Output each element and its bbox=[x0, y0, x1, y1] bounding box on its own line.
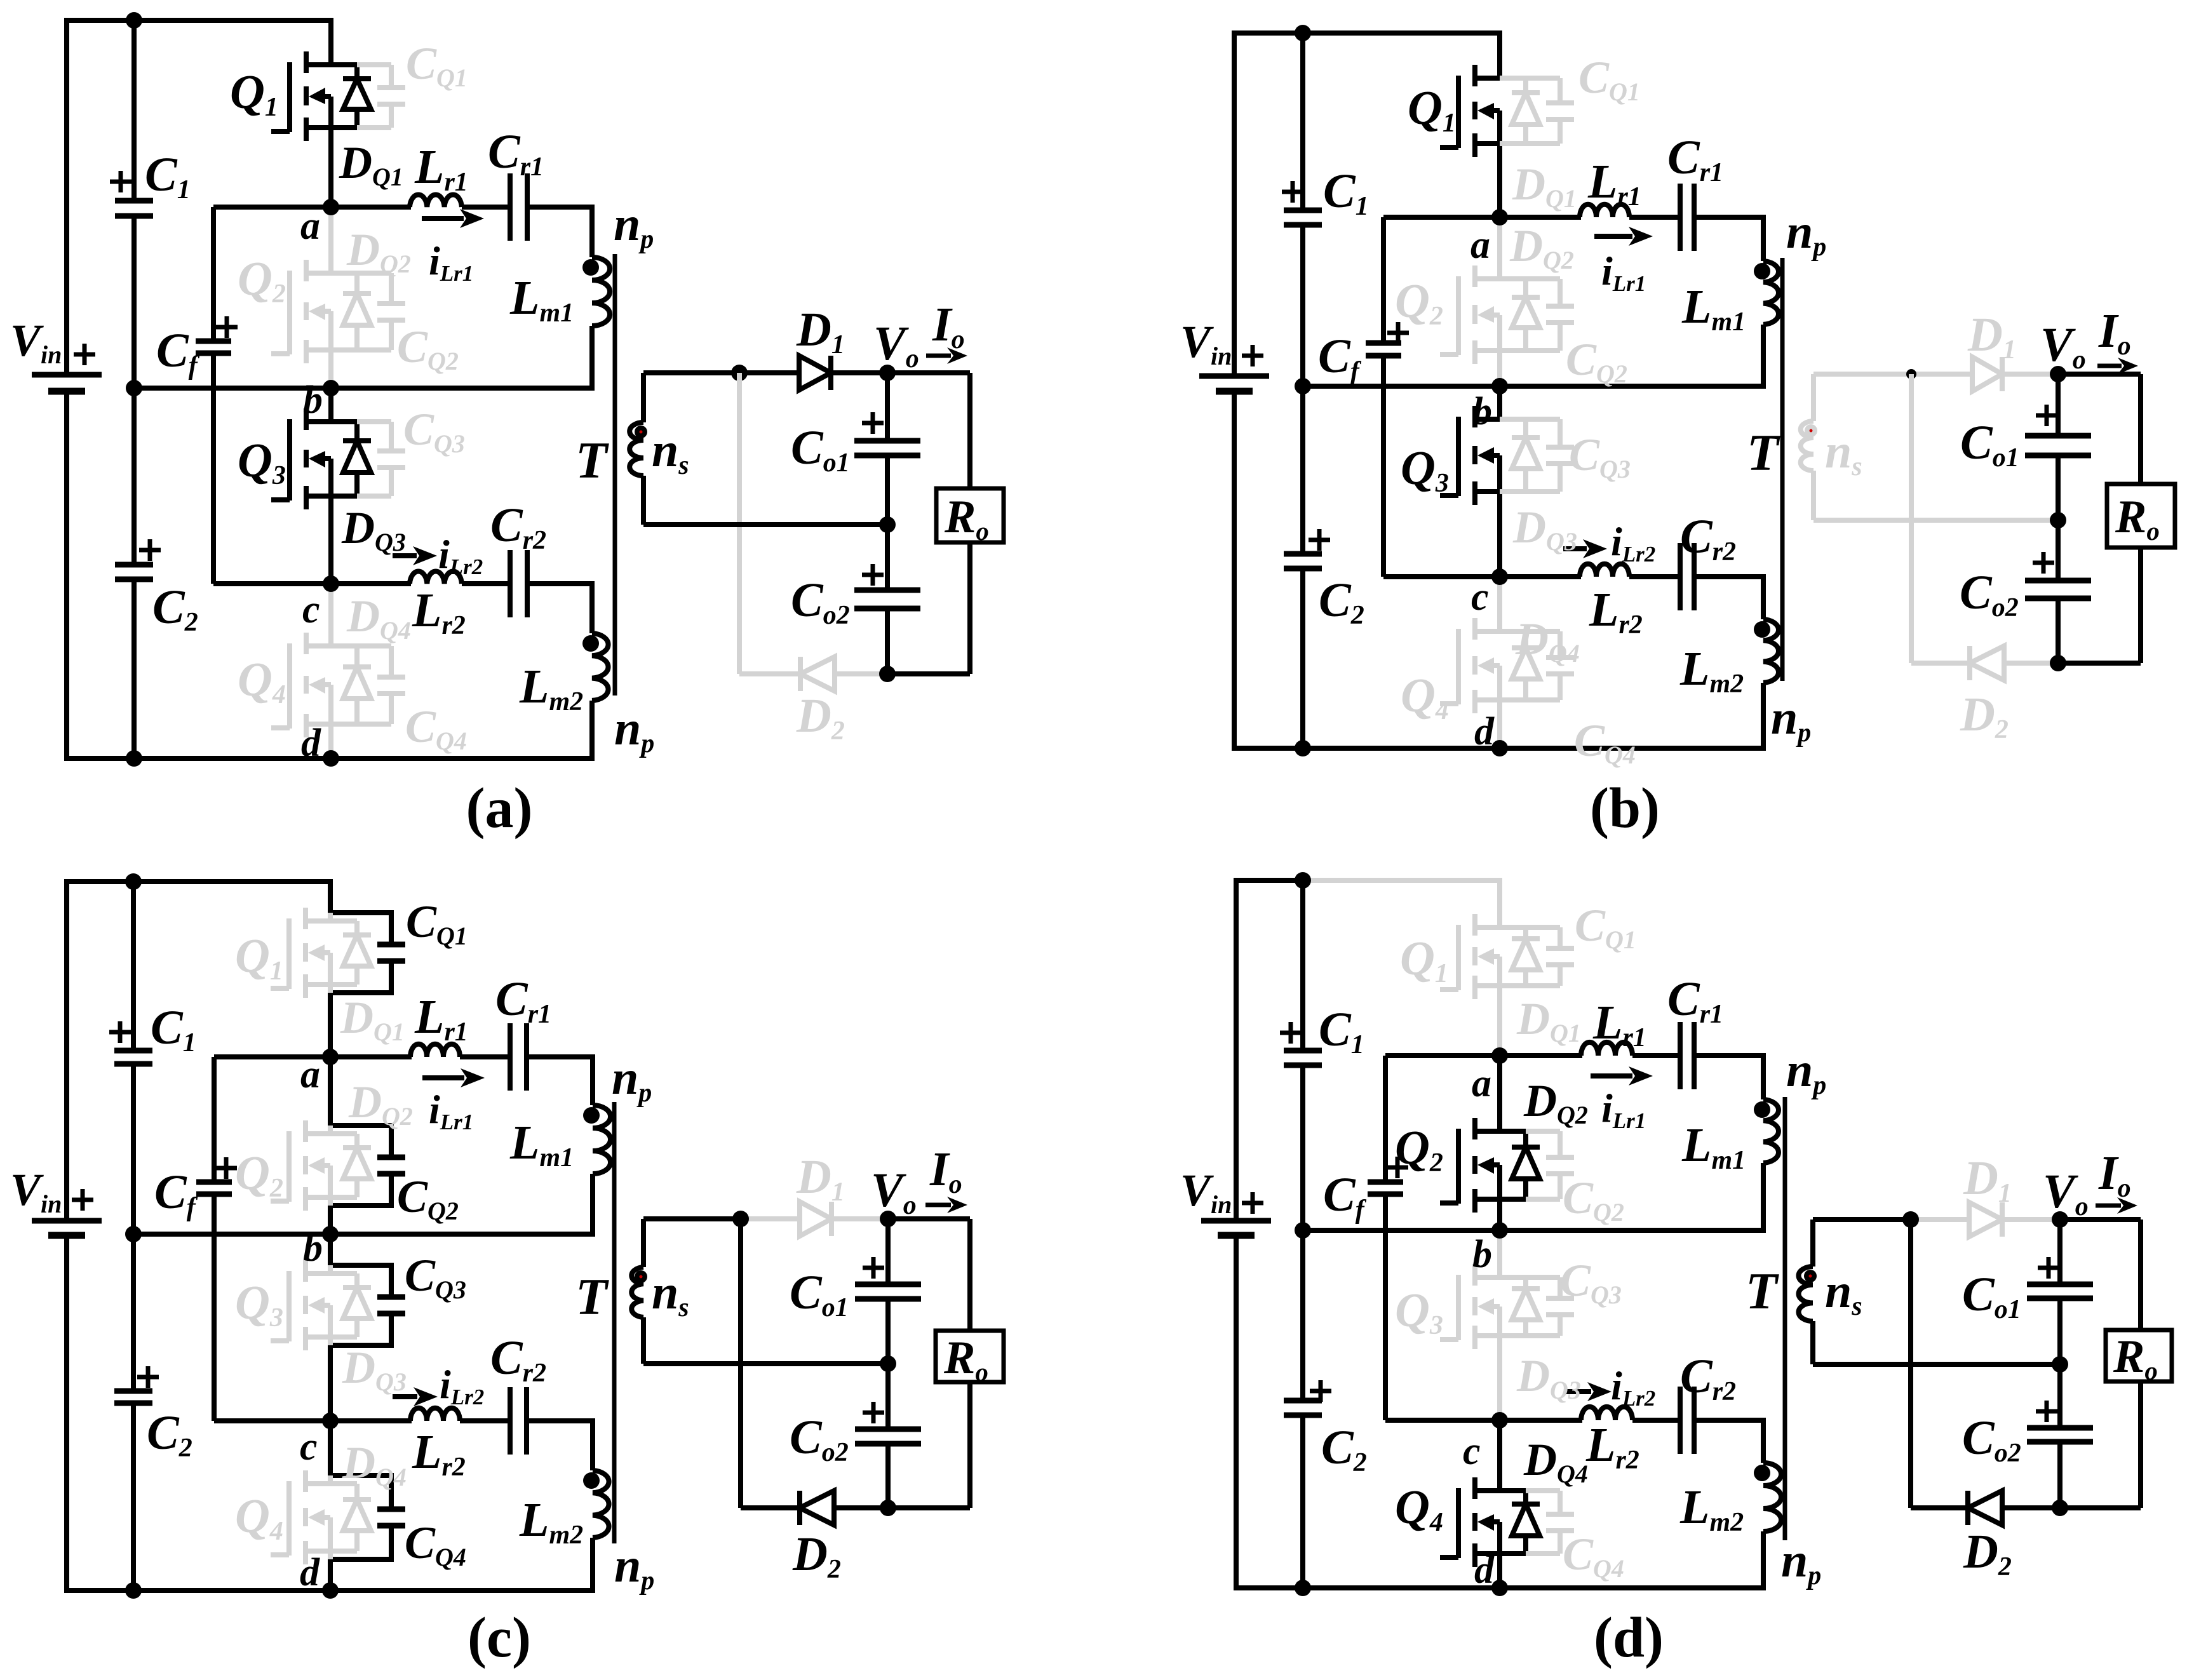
plus sign Vin (a) bbox=[74, 344, 95, 365]
transistor Q3 (d) bbox=[1440, 1264, 1500, 1349]
wire load right bottom (d) bbox=[2138, 1381, 2143, 1508]
diode DQ3 body diode (a) bbox=[343, 422, 371, 496]
transistor Q2 (d) bbox=[1440, 1118, 1500, 1213]
inductor Lr1 (d) bbox=[1581, 1042, 1632, 1056]
current arrow Io (d) bbox=[2096, 1197, 2137, 1214]
wire D1 to Vo (d) bbox=[2002, 1217, 2060, 1222]
wire junction to D1 (b) bbox=[1911, 372, 1972, 377]
label DQ1 (d) bbox=[1516, 993, 1581, 1047]
wire Q2 source lead (b) bbox=[1497, 351, 1502, 386]
node bottom rail junction (c) bbox=[125, 1582, 142, 1599]
capacitor CQ2 snubber (a) bbox=[357, 273, 405, 350]
label CQ3 (d) bbox=[1560, 1255, 1622, 1309]
svg-text:d: d bbox=[1474, 710, 1495, 753]
capacitor C2 (d) bbox=[1284, 1401, 1322, 1415]
wire Q1 drain lead (d) bbox=[1497, 880, 1502, 927]
current arrow Io (c) bbox=[925, 1197, 967, 1213]
wire Q3 drain lead (d) bbox=[1497, 1230, 1502, 1277]
label d (d) bbox=[1474, 1549, 1495, 1592]
plus sign C1 (b) bbox=[1282, 181, 1303, 203]
label Io (c) bbox=[929, 1143, 962, 1199]
inductor Lr2 (c) bbox=[410, 1408, 460, 1421]
wire Q3 diode taps (a) bbox=[331, 422, 357, 496]
label Vin (d) bbox=[1180, 1165, 1232, 1219]
winding ns (b) bbox=[1801, 374, 1814, 520]
label Q1 (c) bbox=[235, 929, 283, 986]
wire c-rail (a) bbox=[213, 581, 411, 586]
label Vo (b) bbox=[2040, 318, 2086, 375]
node Co midpoint (c) bbox=[880, 1355, 896, 1372]
wire Q2 source lead (a) bbox=[328, 350, 333, 388]
wire bottom to load (d) bbox=[2060, 1505, 2141, 1510]
capacitor CQ2 snubber (b) bbox=[1526, 279, 1574, 351]
label Q1 (b) bbox=[1408, 81, 1456, 138]
label Vo (c) bbox=[871, 1164, 917, 1220]
wire mid rail (a) bbox=[643, 522, 887, 527]
plus sign Vin (c) bbox=[72, 1189, 93, 1211]
svg-text:(c): (c) bbox=[468, 1606, 531, 1669]
svg-text:b: b bbox=[303, 1226, 323, 1270]
capacitor CQ3 snubber (a) bbox=[357, 422, 405, 496]
wire ns top to junction (a) bbox=[643, 370, 739, 375]
transistor Q3 (b) bbox=[1440, 406, 1500, 505]
transformer core T (b) bbox=[1780, 258, 1785, 681]
node c (a) bbox=[323, 575, 339, 592]
wire Cr2 to np2 (b) bbox=[1694, 577, 1763, 619]
label c (c) bbox=[300, 1425, 318, 1468]
wire Vo to load top (d) bbox=[2060, 1217, 2141, 1222]
battery Vin (c) bbox=[32, 1221, 102, 1235]
wire np2 return to bottom rail (d) bbox=[1761, 1531, 1766, 1588]
label caption (a) (a) bbox=[466, 777, 533, 840]
label CQ3 (c) bbox=[405, 1250, 466, 1304]
polarity dot np1 (a) bbox=[582, 259, 599, 276]
capacitor Cr1 (d) bbox=[1680, 1022, 1694, 1089]
wire battery to top rail (c) bbox=[67, 882, 133, 1218]
wire Q4 source lead (d) bbox=[1497, 1554, 1502, 1588]
wire Cf bottom lead (d) bbox=[1383, 1194, 1388, 1420]
wire a-rail (a) bbox=[213, 205, 411, 210]
wire battery to bottom rail (c) bbox=[67, 1238, 133, 1590]
wire bottom to load (b) bbox=[2058, 661, 2141, 666]
resistor Ro (b) bbox=[2107, 484, 2175, 548]
wire D2 anode rail (c) bbox=[741, 1505, 888, 1510]
wire C1 to b-rail (a) bbox=[131, 216, 137, 388]
wire b-rail (b) bbox=[1303, 384, 1766, 389]
diode D2 (d) bbox=[1968, 1491, 2002, 1525]
label a (a) bbox=[300, 205, 320, 248]
svg-text:(a): (a) bbox=[466, 777, 533, 840]
label Q3 (a) bbox=[238, 434, 286, 490]
plus sign Co2 (c) bbox=[863, 1402, 884, 1423]
label iLr1 (b) bbox=[1601, 248, 1646, 296]
label DQ3 (b) bbox=[1512, 502, 1577, 556]
label D2 (d) bbox=[1963, 1525, 2012, 1582]
capacitor CQ2 inline (c) bbox=[377, 1157, 405, 1174]
inductor Lr1 (c) bbox=[410, 1044, 460, 1057]
node bottom rail junction (b) bbox=[1295, 740, 1311, 756]
wire Vo to Co1 (d) bbox=[2057, 1220, 2063, 1284]
winding ns (c) bbox=[631, 1219, 643, 1364]
label Lm1 (d) bbox=[1681, 1119, 1746, 1175]
wire Co2 to bottom (d) bbox=[2057, 1442, 2063, 1508]
wire Q4 drain lead (a) bbox=[328, 584, 333, 646]
current arrow iLr2 (a) bbox=[393, 546, 437, 565]
capacitor Cr2 (c) bbox=[510, 1387, 527, 1455]
diode DQ4 body diode (c) bbox=[330, 1484, 371, 1551]
inductor Lr1 (a) bbox=[410, 195, 462, 207]
capacitor C1 (d) bbox=[1284, 1051, 1322, 1065]
node C1-C2 junction on b-rail (d) bbox=[1295, 1222, 1311, 1239]
diode D2 (c) bbox=[800, 1491, 834, 1525]
label ns (b) bbox=[1825, 425, 1862, 481]
label ns (a) bbox=[652, 424, 689, 480]
svg-text:b: b bbox=[303, 379, 323, 422]
label iLr1 (c) bbox=[429, 1087, 473, 1134]
wire Cf top lead (c) bbox=[212, 1057, 217, 1182]
node Co midpoint (d) bbox=[2052, 1356, 2068, 1373]
wire C-chain upper (d) bbox=[1300, 880, 1305, 1051]
svg-text:(d): (d) bbox=[1594, 1606, 1664, 1669]
label c (b) bbox=[1471, 575, 1489, 619]
capacitor CQ4 snubber (d) bbox=[1526, 1491, 1574, 1554]
node top rail junction (a) bbox=[126, 12, 142, 29]
label D1 (b) bbox=[1967, 308, 2016, 365]
wire Lr1 to Cr1 (d) bbox=[1632, 1053, 1680, 1058]
plus sign Co2 (d) bbox=[2036, 1401, 2057, 1422]
polarity dot np1 (c) bbox=[583, 1107, 600, 1124]
wire junction to D1 (d) bbox=[1911, 1217, 1969, 1222]
wire Q3 source lead (a) bbox=[328, 496, 333, 584]
plus sign Cf (b) bbox=[1387, 322, 1409, 344]
label Co1 (b) bbox=[1960, 416, 2019, 473]
wire Cr1 to np1 (a) bbox=[527, 207, 592, 257]
polarity dot np2 (c) bbox=[583, 1472, 600, 1489]
capacitor CQ1 snubber (a) bbox=[357, 65, 405, 128]
capacitor CQ1 inline (c) bbox=[377, 944, 405, 961]
battery Vin (a) bbox=[32, 375, 102, 391]
wire Cf bottom lead (a) bbox=[211, 353, 216, 584]
label Co2 (c) bbox=[790, 1411, 849, 1467]
label D2 (c) bbox=[792, 1528, 841, 1584]
wire C-chain upper (a) bbox=[131, 20, 137, 201]
label b (c) bbox=[303, 1226, 323, 1270]
wire Lr1 to Cr1 (b) bbox=[1629, 215, 1680, 220]
label DQ3 (a) bbox=[341, 502, 406, 556]
wire np2 return to bottom rail (a) bbox=[589, 701, 595, 758]
label CQ1 (c) bbox=[406, 896, 468, 950]
node d (a) bbox=[323, 750, 339, 767]
winding ns (a) bbox=[629, 373, 643, 525]
winding np2 / Lm2 (d) bbox=[1763, 1463, 1781, 1531]
resistor Ro (d) bbox=[2106, 1330, 2172, 1385]
wire C2 lower lead (d) bbox=[1300, 1415, 1305, 1588]
capacitor CQ4 snubber (b) bbox=[1526, 631, 1574, 700]
label Q2 (b) bbox=[1395, 274, 1443, 331]
wire Co1 to mid (b) bbox=[2056, 455, 2061, 520]
label a (b) bbox=[1470, 224, 1490, 267]
label Vin (c) bbox=[10, 1164, 62, 1218]
current arrow iLr1 (b) bbox=[1594, 227, 1653, 246]
label Q3 (b) bbox=[1401, 441, 1449, 498]
wire Cf top lead (a) bbox=[211, 207, 216, 341]
capacitor Cr1 (c) bbox=[510, 1023, 527, 1091]
capacitor Cr2 (d) bbox=[1680, 1387, 1694, 1454]
label Lr1 (b) bbox=[1587, 155, 1641, 212]
wire Q1 leg through CQ1 (c) bbox=[330, 882, 391, 1057]
label np top (d) bbox=[1786, 1044, 1826, 1100]
label DQ2 (b) bbox=[1509, 220, 1574, 274]
wire load right bottom (b) bbox=[2138, 548, 2143, 663]
diode DQ1 body diode (a) bbox=[343, 65, 371, 128]
node a (d) bbox=[1491, 1047, 1508, 1064]
label D2 (a) bbox=[796, 689, 845, 746]
wire C2 upper lead (c) bbox=[131, 1234, 136, 1391]
label Lr2 (b) bbox=[1589, 583, 1643, 640]
label Co1 (d) bbox=[1962, 1268, 2021, 1324]
wire Cr2 to np2 (d) bbox=[1694, 1420, 1763, 1463]
label Q2 (d) bbox=[1395, 1121, 1443, 1178]
diode DQ2 body diode (c) bbox=[330, 1134, 371, 1197]
capacitor Co1 (c) bbox=[855, 1284, 921, 1299]
transistor Q2 (a) bbox=[271, 260, 331, 363]
winding np2 / Lm2 (a) bbox=[592, 633, 609, 701]
plus sign C1 (c) bbox=[109, 1021, 131, 1043]
wire junction to D2 branch (d) bbox=[1908, 1220, 1913, 1508]
label b (a) bbox=[303, 379, 323, 422]
label Q2 (c) bbox=[235, 1146, 283, 1203]
wire Q1 diode taps (a) bbox=[331, 65, 357, 128]
wire Cf bottom lead (b) bbox=[1381, 356, 1386, 577]
transistor Q4 (a) bbox=[271, 633, 331, 737]
transistor Q1 (gray) (c) bbox=[271, 908, 330, 998]
label Io (d) bbox=[2098, 1146, 2131, 1203]
plus sign Vin (d) bbox=[1242, 1192, 1263, 1214]
node Vo (b) bbox=[2050, 366, 2066, 382]
polarity dot ns (b) bbox=[1805, 424, 1817, 437]
label np bottom (c) bbox=[614, 1539, 654, 1596]
wire top rail (d) bbox=[1303, 878, 1502, 883]
plus sign Cf (d) bbox=[1387, 1157, 1408, 1178]
plus sign C1 (a) bbox=[110, 171, 131, 192]
node output bottom (d) bbox=[2052, 1500, 2068, 1516]
capacitor CQ3 snubber (d) bbox=[1526, 1277, 1574, 1336]
wire b-rail (c) bbox=[133, 1232, 595, 1237]
wire Q2 diode taps (d) bbox=[1500, 1131, 1526, 1199]
wire Q3 source lead (b) bbox=[1497, 492, 1502, 577]
wire C2 lower lead (b) bbox=[1300, 568, 1305, 748]
label C1 (a) bbox=[145, 148, 191, 205]
wire Cr1 to np1 (d) bbox=[1694, 1056, 1763, 1099]
label Lm1 (c) bbox=[509, 1116, 574, 1173]
wire c-rail (d) bbox=[1385, 1418, 1582, 1423]
capacitor Co1 (d) bbox=[2027, 1284, 2093, 1298]
label Lr1 (c) bbox=[414, 990, 468, 1047]
plus sign C2 (c) bbox=[137, 1366, 159, 1388]
node C1-C2 junction on b-rail (b) bbox=[1295, 378, 1311, 394]
label T (c) bbox=[575, 1268, 609, 1326]
wire Q2 diode taps (a) bbox=[331, 273, 357, 350]
label Cr2 (d) bbox=[1680, 1350, 1736, 1406]
node a (b) bbox=[1491, 209, 1508, 225]
wire bottom to load (a) bbox=[887, 671, 970, 676]
wire C2 upper lead (a) bbox=[131, 388, 137, 565]
inductor Lr2 (b) bbox=[1580, 564, 1629, 577]
label Lr2 (c) bbox=[412, 1425, 466, 1482]
wire Lr2 to Cr2 (b) bbox=[1629, 574, 1680, 579]
label D2 (b) bbox=[1960, 688, 2009, 744]
wire Lr1 to Cr1 (c) bbox=[460, 1054, 510, 1059]
inductor Lr2 (d) bbox=[1581, 1407, 1632, 1420]
diode D1 (d) bbox=[1969, 1202, 2002, 1237]
label ns (c) bbox=[652, 1266, 689, 1322]
wire ns top to junction (c) bbox=[643, 1216, 741, 1221]
plus sign C2 (a) bbox=[139, 539, 161, 561]
svg-text:a: a bbox=[1472, 1062, 1491, 1105]
label Lr2 (d) bbox=[1585, 1418, 1639, 1475]
wire junction to D2 branch (b) bbox=[1909, 374, 1914, 663]
node Co midpoint (a) bbox=[879, 516, 896, 533]
node b (b) bbox=[1491, 378, 1508, 394]
node top rail junction (d) bbox=[1295, 872, 1311, 889]
diode DQ3 body diode (c) bbox=[330, 1273, 371, 1337]
capacitor Cr1 (b) bbox=[1680, 184, 1694, 251]
wire mid rail (c) bbox=[643, 1361, 888, 1366]
label DQ2 (d) bbox=[1523, 1075, 1588, 1129]
plus sign Co2 (b) bbox=[2033, 552, 2054, 574]
label Lr1 (d) bbox=[1592, 996, 1646, 1052]
label Co1 (c) bbox=[790, 1266, 849, 1322]
transistor Q3 (a) bbox=[271, 408, 331, 509]
label Vo (d) bbox=[2043, 1165, 2089, 1221]
label Io (b) bbox=[2098, 304, 2131, 361]
polarity dot np2 (d) bbox=[1754, 1465, 1770, 1481]
wire Cf top lead (b) bbox=[1381, 217, 1386, 343]
label C1 (b) bbox=[1323, 165, 1369, 221]
transistor Q1 (a) bbox=[271, 51, 331, 141]
capacitor Cf (d) bbox=[1368, 1182, 1403, 1194]
node c (b) bbox=[1491, 568, 1508, 585]
wire C2 lower lead (a) bbox=[131, 579, 137, 758]
current arrow iLr1 (a) bbox=[422, 209, 484, 228]
node top rail junction (b) bbox=[1295, 25, 1311, 41]
wire load right bottom (a) bbox=[967, 542, 972, 674]
wire Co1 to mid (d) bbox=[2057, 1298, 2063, 1364]
label np top (b) bbox=[1786, 205, 1826, 262]
diode DQ2 body diode (d) bbox=[1512, 1131, 1540, 1199]
label d (c) bbox=[300, 1551, 320, 1594]
wire Q2 drain lead (a) bbox=[328, 207, 333, 273]
node Vo (a) bbox=[879, 365, 896, 381]
svg-text:T: T bbox=[1746, 1262, 1779, 1320]
winding np1 / Lm1 (d) bbox=[1763, 1099, 1779, 1163]
wire bottom rail (c) bbox=[133, 1588, 595, 1593]
wire bottom to load (c) bbox=[888, 1505, 970, 1510]
label Cr2 (c) bbox=[490, 1331, 546, 1388]
diode DQ3 body diode (d) bbox=[1512, 1277, 1540, 1336]
wire load right top (d) bbox=[2138, 1220, 2143, 1330]
wire Q1 diode taps (d) bbox=[1500, 927, 1526, 986]
label iLr1 (d) bbox=[1601, 1085, 1646, 1133]
svg-text:d: d bbox=[1474, 1549, 1495, 1592]
svg-text:a: a bbox=[1470, 224, 1490, 267]
label CQ4 (a) bbox=[405, 701, 467, 755]
wire Co1 to mid (c) bbox=[885, 1299, 891, 1364]
label CQ2 (c) bbox=[397, 1171, 459, 1225]
wire Cf bottom lead (c) bbox=[212, 1194, 217, 1421]
label Co2 (d) bbox=[1962, 1411, 2021, 1468]
wire a-rail (d) bbox=[1385, 1053, 1582, 1058]
label np top (c) bbox=[612, 1051, 652, 1108]
current arrow iLr2 (b) bbox=[1563, 539, 1607, 558]
wire top rail (b) bbox=[1303, 30, 1502, 36]
wire Lr1 to Cr1 (a) bbox=[462, 205, 510, 210]
wire Q1 source lead (d) bbox=[1497, 986, 1502, 1056]
svg-text:a: a bbox=[300, 205, 320, 248]
label Lm2 (b) bbox=[1679, 642, 1744, 699]
transistor Q4 (gray) (c) bbox=[271, 1470, 330, 1564]
polarity dot np1 (b) bbox=[1754, 263, 1770, 279]
label caption (d) (d) bbox=[1594, 1606, 1664, 1669]
wire a-rail (c) bbox=[214, 1054, 412, 1059]
diode D1 (b) bbox=[1972, 357, 2002, 391]
label c (d) bbox=[1463, 1430, 1481, 1473]
label Q4 (d) bbox=[1395, 1481, 1443, 1537]
capacitor Cf (c) bbox=[196, 1182, 232, 1194]
wire load right top (a) bbox=[967, 373, 972, 488]
label a (c) bbox=[300, 1053, 320, 1096]
label Vo (a) bbox=[873, 317, 919, 373]
capacitor C2 (b) bbox=[1284, 554, 1322, 568]
wire Lr2 to Cr2 (a) bbox=[462, 581, 510, 586]
transformer core T (a) bbox=[613, 254, 617, 696]
plus sign Cf (a) bbox=[216, 316, 238, 338]
polarity dot np2 (b) bbox=[1754, 621, 1770, 638]
winding np1 / Lm1 (c) bbox=[593, 1105, 610, 1174]
current arrow Io (a) bbox=[926, 347, 967, 364]
winding np1 / Lm1 (b) bbox=[1763, 261, 1779, 325]
label caption (b) (b) bbox=[1590, 777, 1660, 840]
node a (a) bbox=[323, 199, 339, 215]
wire D2 anode rail (b) bbox=[1911, 661, 2058, 666]
label iLr2 (b) bbox=[1611, 519, 1655, 567]
capacitor CQ4 snubber (a) bbox=[357, 646, 405, 724]
wire Q3 source lead (d) bbox=[1497, 1336, 1502, 1420]
label D1 (a) bbox=[796, 303, 845, 360]
transistor Q2 (b) bbox=[1440, 265, 1500, 364]
wire Vo to load top (c) bbox=[888, 1216, 970, 1221]
wire np1 return to b-rail (b) bbox=[1761, 325, 1766, 386]
node secondary junction (a) bbox=[731, 365, 748, 381]
wire Q3 diode taps (d) bbox=[1500, 1277, 1526, 1336]
transistor Q4 (d) bbox=[1440, 1477, 1500, 1567]
capacitor Cr2 (b) bbox=[1680, 543, 1694, 610]
diode D2 (a) bbox=[800, 657, 835, 691]
node C1-C2 junction on b-rail (c) bbox=[125, 1226, 142, 1242]
node d (c) bbox=[322, 1582, 339, 1599]
wire Q4 drain lead (b) bbox=[1497, 577, 1502, 631]
node output bottom (a) bbox=[879, 666, 896, 682]
wire Q3 leg through CQ3 (c) bbox=[330, 1234, 391, 1421]
wire Cr2 to np2 (a) bbox=[527, 584, 592, 633]
capacitor Co1 (a) bbox=[854, 441, 920, 455]
label D1 (c) bbox=[796, 1150, 845, 1207]
label D1 (d) bbox=[1963, 1152, 2012, 1208]
capacitor Cr1 (a) bbox=[510, 173, 527, 241]
wire C2 lower lead (c) bbox=[131, 1403, 136, 1590]
wire Q4 diode taps (b) bbox=[1500, 631, 1526, 700]
wire bottom rail (d) bbox=[1303, 1585, 1766, 1590]
